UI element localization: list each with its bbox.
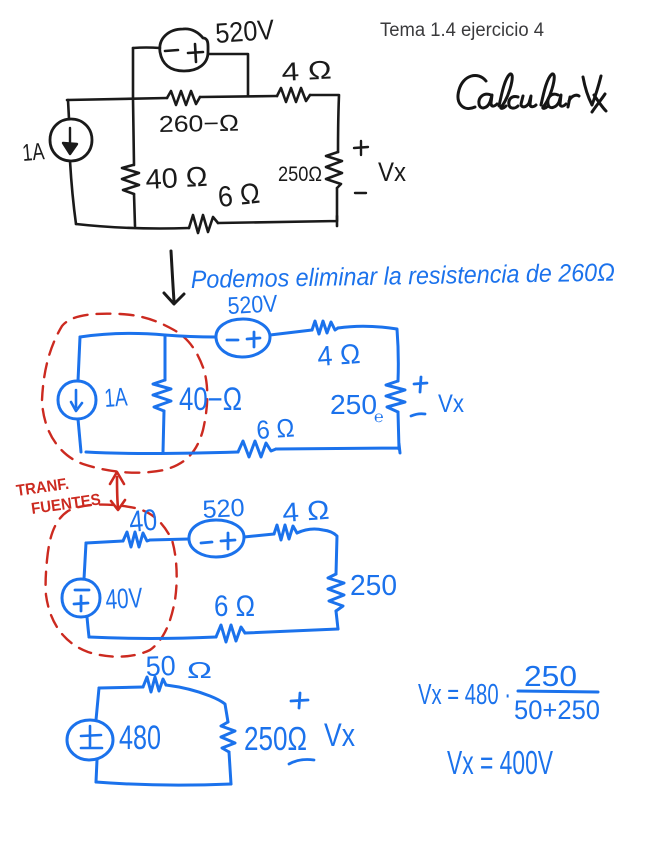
wire: c3 top left <box>86 541 123 543</box>
resistor 40ohm (c2) vertical zigzag <box>153 380 171 411</box>
wire: c3 to source <box>150 539 189 540</box>
label 6ohm (c2) <box>255 412 295 445</box>
label 6ohm <box>216 178 261 214</box>
svg-text:50+250: 50+250 <box>514 695 600 725</box>
red dashed region (c3) <box>46 505 177 657</box>
label Vx <box>378 157 406 187</box>
title: Tema 1.4 ejercicio 4 <box>380 20 544 41</box>
wire: c2 below 1A <box>78 419 81 452</box>
resistor 6ohm zigzag <box>189 215 218 233</box>
handwritten note: Calcular Vx <box>458 74 606 112</box>
svg-text:Vx = 480 ·: Vx = 480 · <box>418 679 511 711</box>
V1 plus sign <box>188 44 203 62</box>
label 520 (c3) <box>202 494 245 524</box>
wire: c4 top right descending <box>166 685 228 722</box>
svg-text:50: 50 <box>145 650 176 682</box>
label 40ohm (c2) <box>179 381 242 417</box>
resistor 4ohm zigzag <box>277 88 310 102</box>
480 source plus-minus inside <box>81 726 102 748</box>
wire: c3 bottom right <box>245 629 338 633</box>
resistor 40 (c3) zigzag <box>123 532 150 547</box>
wire: bottom horizontal right <box>218 216 337 226</box>
wire: c2 bottom horizontal <box>86 452 238 454</box>
svg-text:6 Ω: 6 Ω <box>216 178 261 214</box>
wire: top to source <box>133 46 160 49</box>
equation: Vx = 480 . 250/(50+250) <box>418 661 600 725</box>
40V source plus (bottom) <box>74 596 88 611</box>
wire: c3 below 40V <box>87 617 89 637</box>
label 250ohm (c2) <box>330 389 384 426</box>
svg-text:250: 250 <box>350 570 397 602</box>
label 1A <box>21 138 45 167</box>
wire: c3 bottom horizontal <box>89 637 216 639</box>
wire: c2 below 40ohm <box>163 411 164 452</box>
current source 1A: top wire <box>68 100 69 119</box>
svg-text:Vx: Vx <box>324 717 355 753</box>
resistor 6ohm (c2) zigzag <box>238 441 276 457</box>
resistor 6ohm (c3) zigzag <box>216 625 245 642</box>
svg-text:4 Ω: 4 Ω <box>281 54 333 87</box>
label 260ohm <box>159 110 239 137</box>
svg-text:40−Ω: 40−Ω <box>179 381 242 417</box>
label 250 (c3) <box>350 570 397 602</box>
label 480 (c4) <box>119 719 161 757</box>
svg-text:1A: 1A <box>21 138 45 167</box>
label 250ohm (c4) <box>244 720 307 757</box>
resistor 50ohm (c4) zigzag <box>143 677 166 692</box>
voltage source 40V (c3) circle <box>62 579 100 617</box>
label minus (Vx) <box>355 192 366 194</box>
label Vx (c2) <box>438 390 464 418</box>
svg-text:40 Ω: 40 Ω <box>145 161 209 195</box>
40V source minus (top) <box>75 589 89 592</box>
wire: right vertical below 250ohm <box>336 188 339 221</box>
wire: middle horizontal to 4ohm <box>200 96 277 97</box>
wire: c3 left vertical <box>84 543 86 579</box>
svg-text:520: 520 <box>202 494 245 524</box>
wire: below 1A to bottom <box>70 161 76 224</box>
wire: middle horizontal left part <box>67 98 167 100</box>
resistor 40ohm vertical zigzag <box>122 165 139 194</box>
wire: c2 bottom right <box>276 444 400 453</box>
resistor 4ohm (c2) zigzag <box>312 321 338 334</box>
current source 1A circle <box>50 119 92 161</box>
label minus (c2 Vx) <box>411 414 425 416</box>
svg-text:6 Ω: 6 Ω <box>214 590 255 623</box>
svg-text:520V: 520V <box>227 290 278 320</box>
label 1A (c2) <box>103 381 129 413</box>
voltage source 520V (c2) circle <box>216 319 270 357</box>
wire: middle vertical x=133 to 40ohm <box>133 99 134 165</box>
svg-text:Tema 1.4 ejercicio 4: Tema 1.4 ejercicio 4 <box>380 20 544 41</box>
wire: source to right corner <box>208 54 248 96</box>
label 6ohm (c3) <box>214 590 255 623</box>
svg-text:Vx: Vx <box>378 157 406 187</box>
label 250ohm <box>278 163 322 186</box>
label 50 ohm (c4) <box>145 650 212 683</box>
label minus (c4 Vx) <box>289 760 314 765</box>
wire: c4 below source <box>96 760 97 782</box>
c2 source minus <box>227 339 238 342</box>
wire: c4 bottom horizontal <box>96 782 231 785</box>
wire: bottom horizontal left <box>76 224 189 229</box>
label Vx (c4) <box>324 717 355 753</box>
wire: c2 middle branch vertical <box>164 335 167 380</box>
1A (c2) arrow inside <box>71 390 82 411</box>
svg-text:4 Ω: 4 Ω <box>281 495 330 528</box>
handwritten blue note: Podemos eliminar la resistencia de 260ohm <box>191 259 615 294</box>
wire: c3 right below 250 <box>336 611 338 629</box>
wire: c4 left vertical <box>96 688 99 720</box>
label 4ohm (c2) <box>316 338 361 372</box>
red double arrow (source transformation) <box>110 472 125 510</box>
wire: c3 source to 4ohm <box>244 534 274 537</box>
label 520V <box>214 14 275 49</box>
svg-text:260−Ω: 260−Ω <box>159 110 239 137</box>
svg-text:6 Ω: 6 Ω <box>255 412 295 445</box>
black arrow down to note <box>164 251 184 304</box>
svg-text:Ω: Ω <box>187 657 212 683</box>
wire: top left vertical x=133 <box>132 48 135 99</box>
svg-text:Vx: Vx <box>438 390 464 418</box>
equation fraction bar <box>518 691 598 692</box>
voltage source 520 (c3) circle <box>189 520 244 557</box>
c3 source plus <box>221 533 235 549</box>
wire: c2 4ohm to right corner, down <box>338 326 398 381</box>
resistor 250ohm (c4) vertical zigzag <box>221 722 235 752</box>
wire: c2 top horizontal <box>80 333 216 337</box>
label 40V (c3) <box>105 582 144 615</box>
svg-text:250Ω: 250Ω <box>278 163 322 186</box>
svg-text:480: 480 <box>119 719 161 757</box>
svg-text:Podemos eliminar la resistenci: Podemos eliminar la resistencia de 260Ω <box>191 259 615 294</box>
wire: 4ohm to right corner and down <box>310 95 339 152</box>
V1 minus sign <box>165 50 178 51</box>
svg-text:250: 250 <box>330 389 377 420</box>
wire: c2 left vertical top <box>78 337 80 381</box>
svg-text:40: 40 <box>128 504 159 539</box>
1A arrow inside <box>63 128 77 154</box>
c3 source minus <box>201 542 212 543</box>
resistor 250ohm (c2) vertical zigzag <box>386 381 405 412</box>
label plus (c2 Vx) <box>414 377 427 392</box>
wire: c3 4ohm to right corner down <box>297 529 337 574</box>
svg-text:250: 250 <box>524 661 577 693</box>
label 4ohm <box>281 54 333 87</box>
svg-text:Vx = 400V: Vx = 400V <box>447 744 553 781</box>
svg-text:520V: 520V <box>214 14 275 49</box>
wire: below 40ohm <box>134 194 135 226</box>
current source 1A (c2) circle <box>58 381 96 419</box>
label plus (c4 Vx) <box>291 693 308 708</box>
wire: c2 right vertical below 250 <box>398 412 399 449</box>
svg-text:℮: ℮ <box>374 409 384 426</box>
wire: c2 source to 4ohm <box>270 330 312 335</box>
resistor 260ohm zigzag <box>167 91 200 105</box>
resistor 250ohm vertical zigzag <box>326 152 342 188</box>
resistor 4ohm (c3) zigzag <box>274 525 297 540</box>
c2 source plus <box>247 332 260 347</box>
svg-text:40V: 40V <box>105 582 144 615</box>
equation: Vx = 400V <box>447 744 553 781</box>
label plus (Vx) <box>354 141 368 155</box>
wire: c4 top left <box>99 687 143 688</box>
svg-text:4 Ω: 4 Ω <box>316 338 361 372</box>
label 40ohm <box>145 161 209 195</box>
label 520V (c2) <box>227 290 278 320</box>
svg-text:250Ω: 250Ω <box>244 720 307 757</box>
svg-text:1A: 1A <box>103 381 129 413</box>
voltage source 480 (c4) circle <box>67 720 113 760</box>
voltage source V1 520V circle <box>160 29 208 71</box>
wire: c4 right below 250 <box>229 752 231 784</box>
red note: TRANF. FUENTES <box>15 476 102 518</box>
label 4ohm (c3) <box>281 495 330 528</box>
red dashed region (source transformation) <box>42 314 207 473</box>
resistor 250 (c3) vertical zigzag <box>328 574 344 611</box>
label 40 (c3) <box>128 504 159 539</box>
